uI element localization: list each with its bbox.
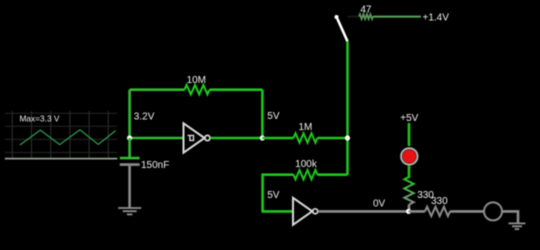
output terminal circle (484, 202, 502, 220)
wire feedback top right segment (5V) (210, 88, 263, 91)
resistor R3 47 (359, 14, 373, 19)
capacitor C1 bottom plate (120, 163, 140, 166)
wire R330h to output terminal (450, 210, 484, 213)
wire R330v to node D (408, 205, 411, 212)
node C junction dot (345, 135, 350, 140)
svg-text:100k: 100k (295, 159, 318, 170)
switch S1 open contact circle (335, 15, 339, 19)
LED D1 red body (403, 150, 417, 164)
svg-text:+5V: +5V (400, 113, 418, 124)
wire 1M to node C (317, 137, 347, 140)
wire R47 to +1.4V (1.4V color) (373, 16, 421, 18)
scope trace (triangle wave) (20, 130, 116, 145)
svg-text:5V: 5V (267, 111, 280, 122)
U1 output bubble (205, 135, 210, 140)
svg-text:5V: 5V (267, 190, 280, 201)
svg-text:47: 47 (360, 5, 372, 16)
wire node D to R330 horizontal (409, 210, 425, 213)
capacitor C1 wire from node A (128, 138, 131, 157)
node A junction dot (cap / input / feedback) (127, 135, 132, 140)
resistor R4 100k (294, 170, 318, 179)
svg-text:+1.4V: +1.4V (423, 13, 450, 24)
wire inverter2 output (0V gray) (318, 210, 409, 213)
U1 hysteresis symbol (188, 135, 194, 140)
wire output terminal to ground (502, 211, 518, 223)
svg-text:3.2V: 3.2V (134, 112, 155, 123)
switch S1 lever (337, 19, 347, 42)
wire 100k left lead to inverter2 input (263, 175, 294, 212)
op-amp U1 schmitt inverter triangle (184, 123, 205, 152)
node B junction dot (inverter1 output) (260, 135, 265, 140)
wire feedback top left segment (130, 88, 185, 91)
svg-text:0V: 0V (373, 199, 386, 210)
scope grid (12, 111, 108, 159)
ground right (509, 223, 526, 229)
svg-text:Max=3.3 V: Max=3.3 V (20, 114, 60, 124)
wire 100k right lead (317, 173, 347, 176)
wire switch top post to R47 (dark, ~0 current) (348, 16, 360, 18)
wire +5V to LED (408, 123, 411, 146)
resistor R2 1M (294, 133, 318, 142)
resistor R1 10M (185, 85, 210, 94)
wire node B to 1M (262, 137, 293, 140)
inverter U2 triangle (293, 198, 312, 225)
wire LED to R330 vertical (408, 166, 411, 178)
node D junction dot (406, 209, 411, 214)
wire switch to node C vertical (5V) (346, 41, 349, 174)
svg-text:1M: 1M (298, 122, 312, 133)
svg-text:10M: 10M (187, 75, 206, 86)
U2 output bubble (313, 209, 318, 214)
wire cap to ground (gray) (128, 166, 131, 208)
scope baseline (0V axis) (5, 158, 118, 160)
wire inverter1 output (5V) (210, 137, 262, 140)
LED D1 ring (401, 148, 417, 164)
ground under capacitor (118, 208, 141, 214)
capacitor C1 top plate (120, 157, 140, 160)
svg-text:330: 330 (431, 196, 448, 207)
svg-text:150nF: 150nF (141, 160, 169, 171)
wire inverter1 input (3.2V) (130, 137, 184, 140)
resistor R6 330 horizontal (425, 207, 450, 216)
wire feedback right vertical (5V) (261, 90, 264, 138)
wire feedback left vertical (3.2V) (128, 90, 131, 138)
